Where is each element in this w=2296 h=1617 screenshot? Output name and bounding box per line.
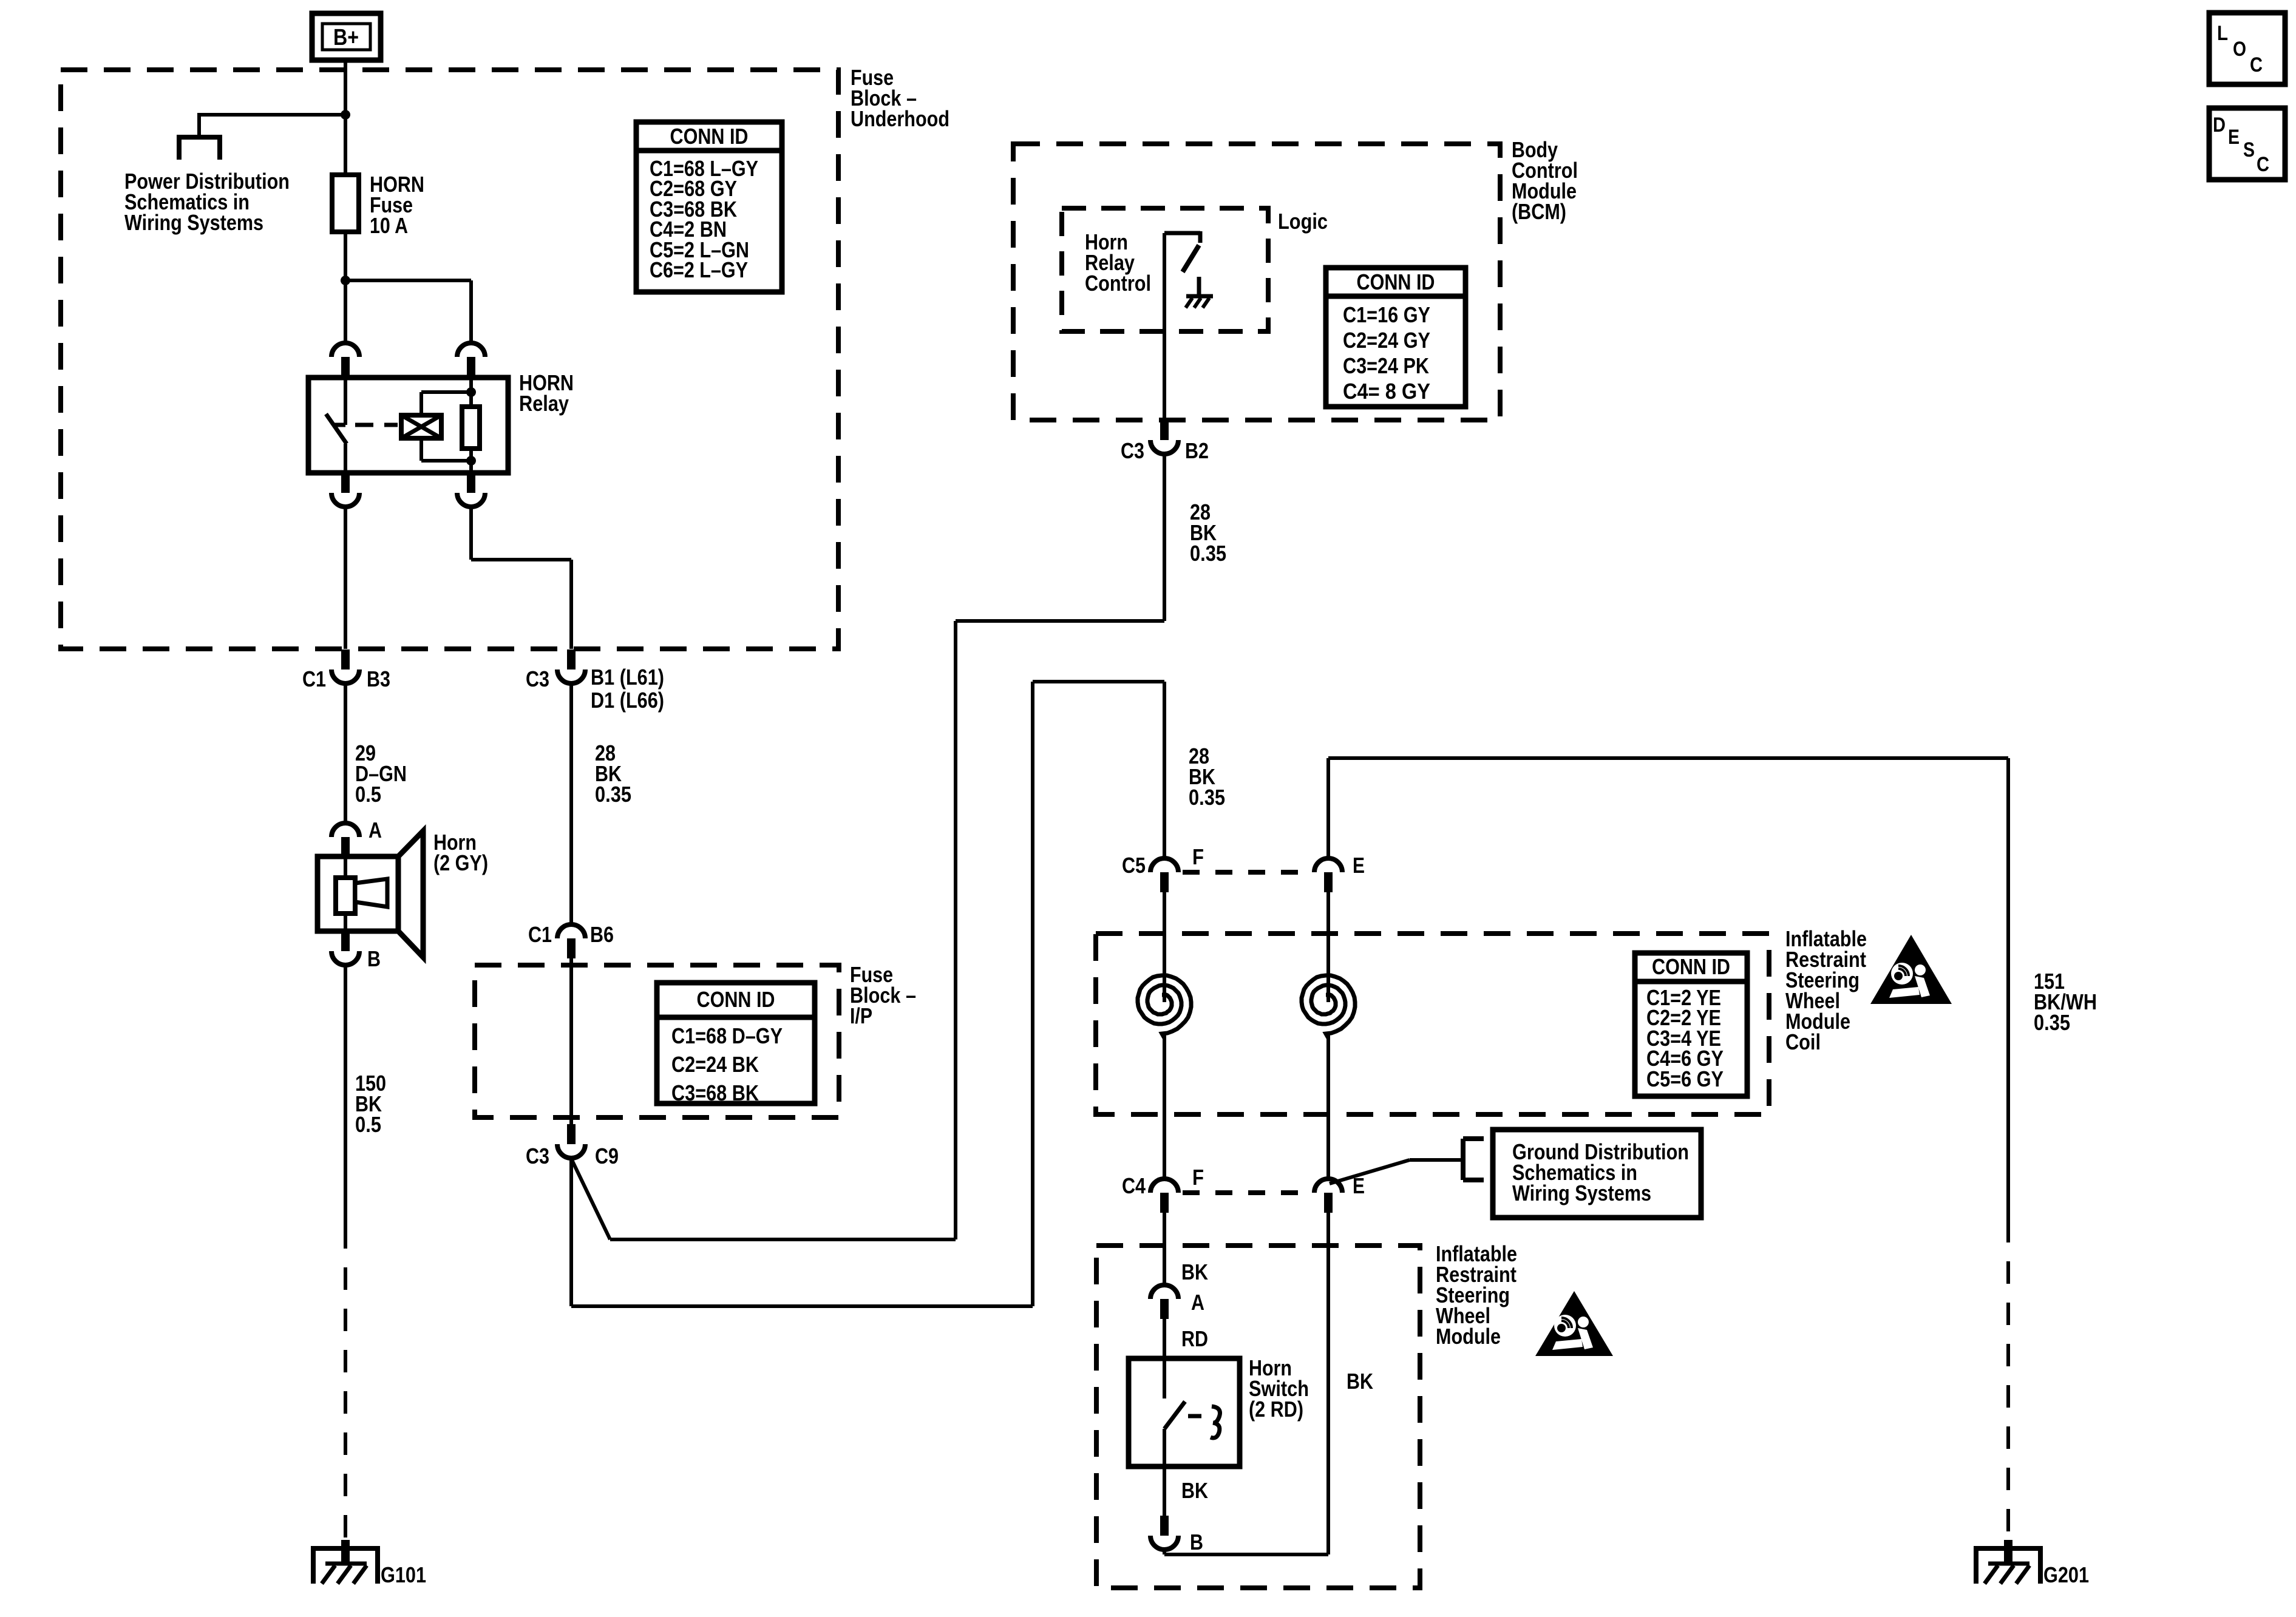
dashed box Fuse Block Underhood (61, 70, 838, 649)
wire relay right pin jog down to C3 (469, 507, 473, 560)
svg-text:CONN ID: CONN ID (1357, 269, 1435, 294)
B+ power symbol (312, 13, 381, 60)
connector B (horn switch) (1160, 1516, 1169, 1536)
warning triangle (coil) (1870, 935, 1952, 1004)
wire label 150 BK 0.5 (344, 966, 347, 1226)
wire C4 to A, label BK (1163, 1213, 1166, 1285)
wire label RD (1163, 1319, 1166, 1358)
svg-text:Logic: Logic (1278, 209, 1328, 234)
wire label 28 BK 0.35 (coil feed) (1163, 682, 1166, 858)
svg-text:Relay: Relay (519, 391, 569, 416)
svg-text:B: B (1190, 1530, 1203, 1554)
svg-text:10 A: 10 A (370, 213, 408, 238)
svg-text:B: B (367, 946, 381, 971)
svg-text:C3=68 BK: C3=68 BK (671, 1080, 759, 1105)
svg-text:C5=6 GY: C5=6 GY (1646, 1066, 1724, 1091)
svg-text:Coil: Coil (1785, 1029, 1821, 1054)
ground distribution reference bracket (1461, 1139, 1466, 1180)
box Ground Distribution Schematics in Wiring Systems (1493, 1130, 1701, 1218)
far right wire 151 BK/WH (2006, 758, 2010, 1220)
svg-text:B2: B2 (1185, 438, 1209, 463)
junction node (341, 110, 350, 120)
LOC reference box (2209, 13, 2285, 84)
svg-text:C2=24 BK: C2=24 BK (671, 1052, 759, 1077)
connector C3/B2 (1160, 420, 1169, 440)
power distribution reference bracket (179, 135, 220, 140)
connector A (horn switch) (1150, 1285, 1178, 1299)
svg-text:C9: C9 (595, 1144, 619, 1168)
svg-text:F: F (1192, 1165, 1204, 1190)
ground G101 (311, 1546, 380, 1551)
svg-text:Wiring Systems: Wiring Systems (1512, 1181, 1651, 1205)
svg-text:D: D (2213, 114, 2226, 137)
svg-text:C3: C3 (526, 666, 549, 691)
fuse F1 HORN Fuse 10A (332, 175, 359, 232)
svg-text:I/P: I/P (850, 1003, 872, 1028)
svg-text:C1: C1 (302, 666, 326, 691)
svg-text:(2 GY): (2 GY) (433, 850, 488, 875)
svg-text:(2 RD): (2 RD) (1249, 1397, 1303, 1422)
svg-text:CONN ID: CONN ID (697, 987, 775, 1012)
svg-text:C1=68 D–GY: C1=68 D–GY (671, 1023, 783, 1048)
svg-text:CONN ID: CONN ID (670, 124, 749, 149)
svg-text:C3: C3 (526, 1144, 549, 1168)
svg-text:G201: G201 (2043, 1562, 2089, 1587)
warning triangle (module) (1535, 1291, 1613, 1356)
wire label 29 D-GN 0.5 (344, 684, 347, 823)
svg-text:RD: RD (1181, 1326, 1208, 1351)
svg-text:C4= 8 GY: C4= 8 GY (1343, 379, 1430, 404)
wire C9 diagonal to BCM branch (571, 1159, 610, 1239)
svg-text:0.5: 0.5 (355, 782, 381, 807)
svg-text:C6=2 L–GY: C6=2 L–GY (650, 257, 748, 282)
svg-text:C1=16 GY: C1=16 GY (1343, 302, 1430, 327)
svg-text:CONN ID: CONN ID (1652, 954, 1730, 979)
connector pin into relay (left) (331, 343, 359, 357)
relay K1 HORN Relay box (308, 378, 508, 473)
horn switch contact (1163, 1358, 1166, 1398)
svg-text:D1 (L66): D1 (L66) (591, 688, 664, 713)
svg-text:BK: BK (1347, 1369, 1373, 1394)
svg-text:C2=24 GY: C2=24 GY (1343, 328, 1430, 353)
wire branch to power distribution reference (199, 113, 345, 117)
ground G201 (1974, 1546, 2043, 1551)
svg-text:Control: Control (1085, 271, 1151, 296)
svg-text:BK: BK (1181, 1478, 1208, 1503)
CONN ID table (Fuse Block I/P) (657, 983, 815, 1103)
connector C5/F (1150, 858, 1178, 872)
wire below switch, label BK (1163, 1466, 1166, 1516)
connector E (upper) (1314, 858, 1342, 872)
svg-text:F: F (1192, 844, 1204, 869)
wire BCM down (1163, 455, 1166, 621)
horn switch membrane contact (1211, 1406, 1220, 1438)
svg-text:E: E (2228, 126, 2240, 149)
wire C9 down to coil branch (569, 1159, 573, 1306)
svg-text:B1 (L61): B1 (L61) (591, 665, 664, 690)
svg-text:0.35: 0.35 (595, 782, 631, 807)
wire E branch to ground distribution reference (1330, 1160, 1410, 1184)
svg-text:C3: C3 (1121, 438, 1144, 463)
connector C4/F (1150, 1179, 1178, 1193)
connector A into horn (331, 823, 359, 837)
wire through I/P fuse block (569, 958, 573, 1124)
svg-text:B+: B+ (333, 25, 359, 50)
svg-text:C: C (2257, 153, 2269, 176)
relay coil junction dots (466, 387, 476, 397)
horn switch S1 box (1129, 1358, 1240, 1466)
relay coil (box with X) (401, 415, 441, 438)
connector E (lower) (1314, 1179, 1342, 1193)
right leg wire BK (1326, 1213, 1330, 1554)
connector C3/B1 D1 (567, 649, 576, 670)
svg-text:0.5: 0.5 (355, 1112, 381, 1137)
svg-text:G101: G101 (381, 1562, 426, 1587)
svg-text:0.35: 0.35 (1190, 541, 1226, 566)
BCM horn relay control switch (1163, 233, 1166, 420)
horn switch mechanical link dash (1188, 1414, 1201, 1419)
wire branch right to relay coil pin (345, 279, 471, 282)
svg-text:B3: B3 (367, 666, 390, 691)
connector C1/B3 (341, 649, 350, 670)
coil spiral right (1326, 892, 1330, 1002)
connector pin out of relay (right) (467, 473, 475, 493)
connector B below horn (341, 931, 350, 951)
svg-text:C1: C1 (528, 922, 552, 947)
DESC reference box (2209, 108, 2285, 180)
dashed box Fuse Block I/P (475, 965, 839, 1117)
dashed box Logic (1062, 208, 1268, 331)
svg-text:BK: BK (1181, 1259, 1208, 1284)
svg-text:L: L (2217, 22, 2228, 45)
BCM internal ground symbol (1197, 277, 1201, 296)
wire B+ down (344, 60, 347, 175)
junction node 2 (341, 276, 350, 285)
svg-text:Underhood: Underhood (851, 106, 949, 131)
connector C3/C9 splice (567, 1124, 576, 1144)
relay mechanical link (dashed) (355, 423, 398, 427)
dashed box steering wheel module coil (1096, 934, 1769, 1114)
svg-text:O: O (2233, 38, 2246, 61)
wire label 28 BK 0.35 (left) (569, 684, 573, 925)
dashed wire to G201 (2006, 1220, 2010, 1545)
relay coil wires (419, 392, 423, 415)
svg-text:B6: B6 (590, 922, 614, 947)
svg-text:C: C (2250, 53, 2263, 76)
wire B to right leg (1163, 1548, 1166, 1554)
wire fuse to relay (344, 232, 347, 343)
connector C1/B6 (557, 924, 585, 938)
svg-text:0.35: 0.35 (2034, 1010, 2070, 1035)
svg-text:Wiring Systems: Wiring Systems (124, 210, 263, 235)
svg-text:E: E (1353, 853, 1365, 878)
svg-text:S: S (2243, 138, 2255, 161)
relay switch contact (344, 378, 347, 425)
wire E up and across to far right (1326, 758, 1330, 858)
svg-text:A: A (369, 818, 382, 842)
coil spiral left (1163, 892, 1166, 1002)
dashed box Inflatable Restraint Steering Wheel Module (1096, 1246, 1420, 1588)
svg-text:C5: C5 (1122, 853, 1146, 878)
dashed link F to E (upper) (1183, 870, 1310, 875)
dashed box Body Control Module (1013, 144, 1500, 420)
wire relay left pin down to fuse block edge (344, 507, 347, 649)
svg-text:C3=24 PK: C3=24 PK (1343, 353, 1429, 378)
CONN ID table (coil) (1635, 953, 1747, 1096)
connector pin out of relay (left) (341, 473, 350, 493)
relay resistor (469, 378, 473, 407)
connector pin into relay (right) (457, 343, 485, 357)
svg-text:(BCM): (BCM) (1512, 199, 1566, 224)
CONN ID table (fuse block underhood) (636, 122, 782, 292)
horn component (318, 856, 398, 931)
svg-text:A: A (1191, 1290, 1204, 1315)
svg-text:C4: C4 (1122, 1173, 1146, 1198)
CONN ID table (BCM) (1326, 268, 1466, 407)
svg-text:Module: Module (1436, 1324, 1501, 1349)
dashed wire to G101 (344, 1226, 347, 1545)
dashed link F to E (lower) (1183, 1190, 1310, 1195)
svg-text:0.35: 0.35 (1189, 785, 1225, 810)
